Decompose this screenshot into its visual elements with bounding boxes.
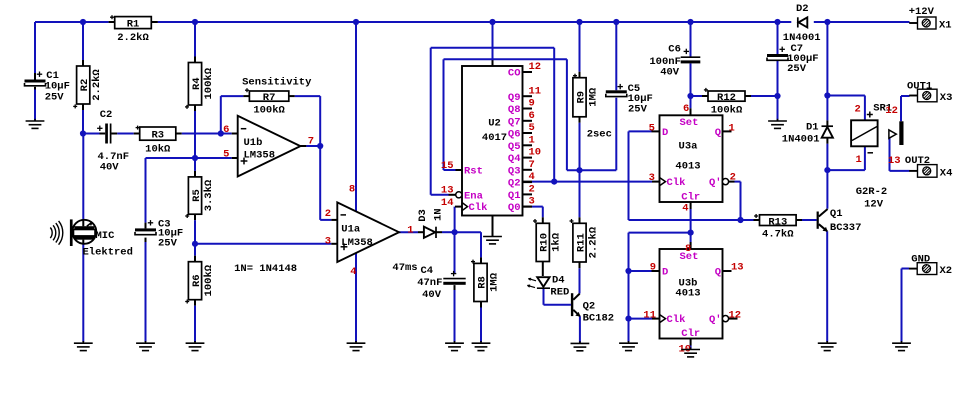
svg-text:BC337: BC337: [830, 222, 862, 234]
svg-text:13: 13: [441, 184, 454, 196]
svg-text:47nF: 47nF: [417, 277, 442, 289]
svg-text:25V: 25V: [628, 103, 648, 115]
svg-text:40V: 40V: [100, 162, 120, 174]
svg-text:12: 12: [885, 105, 898, 117]
svg-text:4: 4: [350, 266, 356, 278]
svg-text:1N4001: 1N4001: [782, 133, 820, 145]
svg-text:2: 2: [854, 103, 860, 115]
svg-text:40V: 40V: [660, 66, 680, 78]
svg-text:2.2kΩ: 2.2kΩ: [587, 226, 599, 258]
svg-text:D1: D1: [806, 121, 819, 133]
svg-text:U3a: U3a: [679, 141, 699, 153]
svg-text:12V: 12V: [864, 198, 884, 210]
svg-text:1: 1: [407, 225, 413, 237]
svg-text:D2: D2: [796, 3, 809, 15]
svg-text:4017: 4017: [482, 132, 507, 144]
svg-text:X3: X3: [940, 92, 953, 104]
svg-text:1: 1: [529, 134, 535, 146]
svg-text:3.3kΩ: 3.3kΩ: [203, 179, 215, 211]
svg-text:6: 6: [529, 110, 535, 122]
svg-text:5: 5: [649, 123, 655, 135]
svg-text:12: 12: [529, 61, 542, 73]
svg-text:2.2kΩ: 2.2kΩ: [91, 69, 103, 101]
svg-text:13: 13: [888, 155, 901, 167]
svg-text:Clr: Clr: [681, 328, 700, 340]
svg-text:1: 1: [855, 154, 861, 166]
svg-text:MIC: MIC: [96, 230, 116, 242]
svg-text:47ms: 47ms: [392, 262, 417, 274]
svg-text:R7: R7: [263, 92, 276, 104]
svg-text:Ena: Ena: [464, 190, 484, 202]
svg-text:R10: R10: [539, 233, 551, 252]
svg-text:Clk: Clk: [667, 314, 686, 326]
svg-text:9: 9: [529, 98, 535, 110]
svg-text:Sensitivity: Sensitivity: [242, 77, 312, 89]
svg-text:2sec: 2sec: [587, 128, 612, 140]
svg-text:10: 10: [529, 147, 542, 159]
svg-text:Q1: Q1: [830, 208, 843, 220]
svg-text:R11: R11: [575, 233, 587, 252]
svg-text:3: 3: [529, 196, 535, 208]
svg-text:OUT1: OUT1: [907, 80, 932, 92]
svg-text:9: 9: [650, 261, 656, 273]
svg-text:Rst: Rst: [464, 165, 483, 177]
svg-text:G2R-2: G2R-2: [856, 186, 888, 198]
svg-text:100kΩ: 100kΩ: [203, 67, 215, 99]
svg-text:4013: 4013: [675, 161, 700, 173]
svg-text:X4: X4: [940, 167, 953, 179]
svg-text:8: 8: [349, 184, 355, 196]
svg-text:R4: R4: [191, 77, 203, 90]
svg-text:100kΩ: 100kΩ: [253, 104, 285, 116]
svg-text:C6: C6: [668, 44, 681, 56]
svg-text:Q9: Q9: [508, 92, 521, 104]
svg-text:U1b: U1b: [244, 137, 263, 149]
svg-text:R2: R2: [79, 79, 91, 92]
svg-text:2.2kΩ: 2.2kΩ: [117, 32, 149, 44]
svg-text:D3: D3: [417, 209, 429, 222]
svg-text:Q5: Q5: [508, 141, 521, 153]
svg-text:D: D: [662, 127, 668, 139]
svg-text:R6: R6: [191, 274, 203, 287]
svg-text:Q2: Q2: [508, 178, 521, 190]
svg-text:+12V: +12V: [909, 6, 935, 18]
svg-text:4: 4: [529, 171, 535, 183]
svg-text:1kΩ: 1kΩ: [551, 232, 563, 252]
svg-text:R9: R9: [575, 91, 587, 104]
svg-text:C2: C2: [100, 109, 113, 121]
svg-text:25V: 25V: [45, 92, 65, 104]
svg-text:2: 2: [529, 184, 535, 196]
svg-text:U2: U2: [488, 118, 501, 130]
svg-text:40V: 40V: [422, 289, 442, 301]
svg-text:11: 11: [643, 309, 656, 321]
svg-text:12: 12: [729, 309, 742, 321]
svg-text:Elektred: Elektred: [83, 247, 133, 259]
svg-text:X1: X1: [939, 19, 952, 31]
svg-text:Clr: Clr: [681, 191, 700, 203]
svg-text:6: 6: [683, 103, 689, 115]
svg-text:8: 8: [685, 243, 691, 255]
svg-text:RED: RED: [550, 287, 569, 299]
svg-text:X2: X2: [940, 265, 953, 277]
svg-text:Q': Q': [709, 314, 722, 326]
svg-text:OUT2: OUT2: [905, 155, 930, 167]
svg-text:Q4: Q4: [508, 153, 521, 165]
svg-text:14: 14: [441, 197, 454, 209]
svg-text:1MΩ: 1MΩ: [587, 87, 599, 107]
svg-text:GND: GND: [911, 253, 930, 265]
svg-text:U1a: U1a: [341, 224, 361, 236]
svg-text:6: 6: [223, 124, 229, 136]
svg-text:BC182: BC182: [583, 313, 615, 325]
svg-text:3: 3: [325, 235, 331, 247]
svg-text:Q3: Q3: [508, 165, 521, 177]
svg-text:1N: 1N: [432, 208, 444, 221]
svg-text:LM358: LM358: [341, 237, 373, 249]
svg-text:2: 2: [325, 208, 331, 220]
svg-text:10kΩ: 10kΩ: [145, 143, 171, 155]
svg-text:100kΩ: 100kΩ: [711, 104, 743, 116]
svg-text:Q1: Q1: [508, 190, 521, 202]
svg-text:15: 15: [441, 160, 454, 172]
svg-text:7: 7: [308, 135, 314, 147]
svg-text:13: 13: [731, 261, 744, 273]
svg-text:1N= 1N4148: 1N= 1N4148: [234, 263, 297, 275]
svg-text:Q: Q: [715, 127, 721, 139]
svg-text:R13: R13: [768, 216, 787, 228]
svg-text:R8: R8: [476, 276, 488, 289]
svg-text:Q0: Q0: [508, 202, 521, 214]
svg-text:CO: CO: [508, 68, 521, 80]
svg-text:LM358: LM358: [244, 149, 276, 161]
svg-text:25V: 25V: [787, 63, 807, 75]
svg-text:1N4001: 1N4001: [783, 32, 821, 44]
svg-text:D4: D4: [552, 275, 565, 287]
svg-text:5: 5: [223, 148, 229, 160]
svg-text:D: D: [662, 267, 668, 279]
svg-text:25V: 25V: [158, 237, 178, 249]
svg-text:100kΩ: 100kΩ: [203, 264, 215, 296]
svg-text:R5: R5: [191, 189, 203, 202]
svg-text:Q6: Q6: [508, 129, 521, 141]
svg-text:Clk: Clk: [667, 177, 686, 189]
svg-text:Q: Q: [715, 267, 721, 279]
svg-text:2: 2: [730, 171, 736, 183]
svg-text:R12: R12: [717, 92, 736, 104]
svg-text:4013: 4013: [675, 288, 700, 300]
svg-text:Q': Q': [709, 177, 722, 189]
svg-text:4.7kΩ: 4.7kΩ: [762, 229, 794, 241]
svg-text:Clk: Clk: [469, 202, 488, 214]
svg-text:3: 3: [649, 172, 655, 184]
svg-text:11: 11: [529, 85, 542, 97]
svg-text:R1: R1: [127, 19, 140, 31]
svg-text:7: 7: [529, 159, 535, 171]
svg-text:Q7: Q7: [508, 116, 521, 128]
svg-text:5: 5: [529, 122, 535, 134]
svg-text:R3: R3: [151, 130, 164, 142]
svg-text:Q2: Q2: [583, 300, 596, 312]
svg-text:Q8: Q8: [508, 104, 521, 116]
svg-text:1MΩ: 1MΩ: [488, 272, 500, 292]
svg-text:1: 1: [729, 123, 735, 135]
svg-text:4: 4: [682, 203, 688, 215]
svg-text:Set: Set: [680, 117, 699, 129]
svg-text:C4: C4: [421, 265, 434, 277]
